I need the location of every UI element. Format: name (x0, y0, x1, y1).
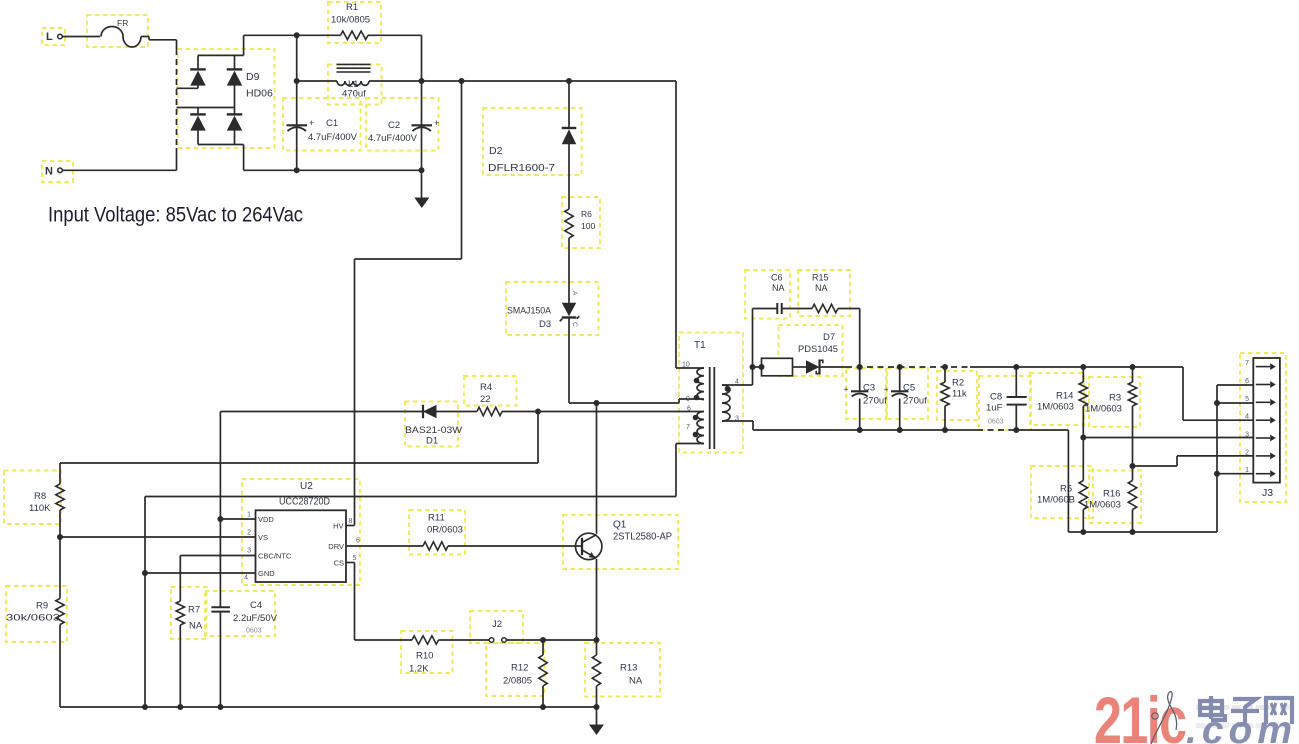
svg-text:R2: R2 (952, 378, 964, 389)
svg-text:BAS21-03W: BAS21-03W (405, 425, 462, 436)
svg-text:6: 6 (687, 406, 691, 413)
svg-text:A: A (571, 291, 578, 296)
svg-text:11k: 11k (952, 389, 967, 400)
svg-text:GND: GND (258, 569, 275, 578)
svg-text:4: 4 (735, 379, 739, 386)
svg-text:0R/0603: 0R/0603 (427, 525, 463, 536)
svg-text:R4: R4 (480, 382, 492, 393)
svg-text:CS: CS (334, 559, 344, 568)
svg-text:R11: R11 (428, 513, 445, 524)
svg-text:1M/060B: 1M/060B (1037, 495, 1075, 506)
svg-text:R13: R13 (620, 663, 637, 674)
svg-text:C5: C5 (903, 383, 915, 394)
svg-text:UCC28720D: UCC28720D (279, 497, 330, 508)
svg-text:R1: R1 (346, 2, 358, 13)
svg-text:R7: R7 (188, 605, 200, 616)
svg-text:U2: U2 (300, 481, 313, 492)
svg-text:DRV: DRV (328, 542, 344, 551)
svg-text:2/0805: 2/0805 (503, 676, 532, 687)
svg-text:DFLR1600-7: DFLR1600-7 (488, 162, 555, 174)
svg-text:+: + (309, 118, 314, 128)
svg-text:R16: R16 (1103, 489, 1120, 500)
svg-text:2.2uF/50V: 2.2uF/50V (233, 613, 278, 624)
svg-text:SMAJ150A: SMAJ150A (507, 306, 552, 317)
svg-text:L: L (46, 31, 53, 43)
svg-text:D1: D1 (426, 436, 438, 447)
svg-text:D2: D2 (489, 145, 503, 157)
svg-text:T1: T1 (694, 340, 706, 351)
svg-text:7: 7 (1245, 360, 1249, 367)
svg-text:R5: R5 (1060, 484, 1072, 495)
svg-text:7: 7 (686, 424, 690, 431)
svg-text:4.7uF/400V: 4.7uF/400V (368, 133, 418, 144)
svg-text:+: + (434, 118, 439, 128)
svg-text:D7: D7 (823, 332, 835, 343)
svg-text:2: 2 (247, 530, 251, 537)
svg-text:R10: R10 (416, 651, 433, 662)
svg-text:5: 5 (353, 555, 357, 562)
svg-text:NA: NA (772, 283, 785, 293)
svg-text:J3: J3 (1262, 487, 1273, 499)
svg-text:4: 4 (1245, 414, 1249, 421)
svg-text:FR: FR (117, 18, 128, 28)
svg-text:110K: 110K (29, 503, 51, 514)
svg-text:NA: NA (815, 283, 828, 293)
svg-text:R8: R8 (34, 491, 46, 502)
svg-text:3: 3 (735, 416, 739, 423)
svg-text:0603: 0603 (988, 419, 1004, 426)
svg-text:1: 1 (247, 512, 251, 519)
svg-text:C3: C3 (863, 383, 875, 394)
svg-text:NA: NA (629, 676, 643, 687)
svg-text:C1: C1 (326, 118, 338, 129)
svg-text:470uf: 470uf (342, 89, 366, 100)
svg-text:R12: R12 (511, 663, 528, 674)
svg-text:4.7uF/400V: 4.7uF/400V (308, 132, 358, 143)
svg-text:2STL2580-AP: 2STL2580-AP (613, 532, 672, 543)
svg-text:CBC/NTC: CBC/NTC (258, 552, 292, 561)
svg-text:4: 4 (244, 575, 248, 582)
svg-text:+: + (884, 385, 889, 394)
svg-text:J2: J2 (492, 619, 502, 630)
svg-text:NA: NA (189, 621, 203, 632)
svg-text:6: 6 (356, 538, 360, 545)
svg-text:C6: C6 (771, 273, 783, 283)
svg-text:100: 100 (581, 221, 595, 231)
svg-text:R3: R3 (1109, 393, 1121, 404)
svg-text:D9: D9 (246, 71, 260, 83)
svg-text:1: 1 (1245, 467, 1249, 474)
svg-text:2: 2 (1245, 449, 1249, 456)
svg-text:5: 5 (1245, 396, 1249, 403)
svg-text:3: 3 (1245, 432, 1249, 439)
svg-text:Input Voltage: 85Vac to 264Vac: Input Voltage: 85Vac to 264Vac (48, 203, 303, 227)
svg-text:1M/0603: 1M/0603 (1037, 402, 1074, 413)
svg-text:C: C (571, 322, 578, 327)
svg-text:3: 3 (247, 548, 251, 555)
svg-text:6: 6 (1245, 378, 1249, 385)
svg-text:PDS1045: PDS1045 (798, 344, 838, 355)
svg-text:8: 8 (349, 518, 353, 525)
svg-text:270uf: 270uf (863, 396, 887, 407)
svg-text:22: 22 (480, 394, 491, 405)
svg-text:N: N (45, 166, 53, 178)
svg-text:VS: VS (258, 533, 268, 542)
svg-text:1uF: 1uF (986, 403, 1003, 414)
svg-text:C8: C8 (990, 392, 1002, 403)
svg-text:R9: R9 (36, 601, 48, 612)
svg-text:VDD: VDD (258, 515, 274, 524)
svg-text:9: 9 (686, 396, 690, 403)
svg-text:R14: R14 (1056, 391, 1073, 402)
svg-text:1M/0603: 1M/0603 (1084, 500, 1121, 511)
svg-text:C2: C2 (388, 120, 400, 131)
svg-text:Q1: Q1 (613, 520, 627, 531)
svg-text:1M/0603: 1M/0603 (1085, 404, 1122, 415)
svg-text:270uf: 270uf (903, 396, 927, 407)
svg-text:30k/0603: 30k/0603 (6, 613, 60, 624)
svg-text:+: + (844, 385, 849, 394)
svg-text:R6: R6 (581, 209, 592, 219)
svg-text:10: 10 (682, 362, 690, 369)
svg-text:HV: HV (333, 522, 343, 531)
svg-text:0603: 0603 (246, 628, 262, 635)
svg-text:HD06: HD06 (246, 88, 273, 100)
svg-text:1.2K: 1.2K (409, 664, 429, 675)
svg-text:D3: D3 (539, 319, 551, 330)
svg-text:R15: R15 (812, 273, 829, 283)
svg-text:10k/0805: 10k/0805 (331, 15, 370, 26)
svg-text:C4: C4 (250, 600, 262, 611)
